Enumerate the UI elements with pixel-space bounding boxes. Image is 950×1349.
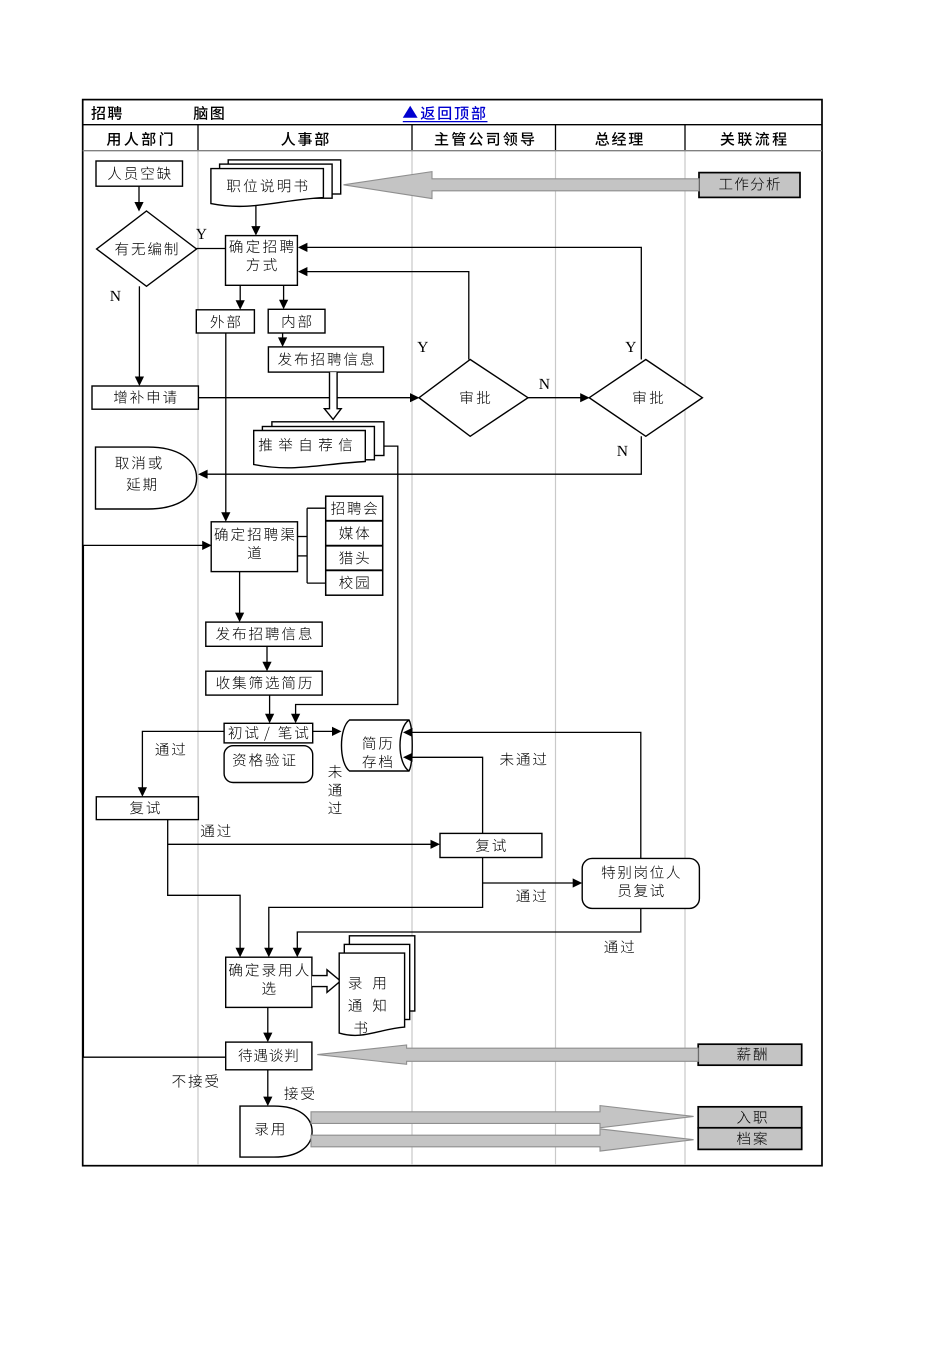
shape: resume archive bbox=[341, 720, 412, 771]
gray box onboarding label bbox=[737, 1111, 767, 1124]
title row bottom line bbox=[83, 124, 822, 126]
column divider x=555.5 bbox=[555, 125, 557, 151]
arrowhead into decide-method top bbox=[251, 226, 260, 236]
title: recruitment label bbox=[91, 106, 121, 120]
label Y at approval diamond 2 bbox=[625, 342, 636, 352]
box: re-test middle bbox=[440, 833, 542, 857]
title: back-to-top link text bbox=[421, 106, 486, 120]
gray arrow: job analysis to job description stack bbox=[344, 172, 700, 199]
arrowhead into collect-resumes bbox=[262, 662, 271, 672]
arrowhead into supplement-request bbox=[135, 377, 144, 387]
wire: re-test middle branch right to special-post-retest bbox=[483, 882, 579, 884]
label Y at approval diamond 1 bbox=[417, 342, 428, 352]
column divider x=412 bbox=[411, 125, 413, 151]
box: staff vacancy bbox=[96, 161, 183, 186]
diamond: approval 2 bbox=[589, 360, 702, 437]
wire: special-post-retest fail feedback to resume-archive bbox=[407, 732, 641, 858]
gray box: onboarding bbox=[698, 1107, 802, 1128]
wire: collect-resumes to first-test bbox=[269, 695, 271, 719]
box: campus bbox=[339, 576, 368, 589]
arrowhead into re-test left bbox=[138, 787, 147, 797]
box: headhunter bbox=[339, 551, 369, 564]
arrowhead into has-quota diamond bbox=[134, 202, 143, 212]
wire: first-test pass left and down to re-test bbox=[142, 731, 224, 793]
gray arrow: salary to negotiation box bbox=[317, 1045, 698, 1064]
gray arrow: hire to archives bbox=[311, 1129, 694, 1151]
gray box: job analysis bbox=[699, 173, 800, 198]
title: back-to-top link triangle bbox=[403, 106, 418, 118]
box: decide recruitment channel bbox=[211, 522, 297, 572]
box: job fair bbox=[326, 496, 383, 595]
wire: first-test fail to resume-archive bbox=[313, 730, 338, 732]
wire: decide-hire to negotiation box bbox=[267, 1007, 269, 1038]
shape: cancel or delay bbox=[96, 447, 197, 509]
wire: re-test middle fail feedback to resume-archive bbox=[407, 757, 483, 833]
label fail (re-test middle feedback) bbox=[500, 753, 546, 766]
arrowhead into cancel-or-delay bbox=[198, 470, 208, 479]
label N below has-quota diamond bbox=[110, 291, 120, 301]
wire: job-description stack to decide-method box bbox=[255, 203, 257, 232]
box: negotiation of pay bbox=[226, 1042, 312, 1070]
thick hollow arrow: decide-hire to offer letters bbox=[312, 970, 341, 993]
wire: re-test left pass to re-test middle bbox=[168, 843, 436, 845]
box: media bbox=[339, 526, 369, 539]
wire: vacancy box to has-quota diamond bbox=[138, 186, 140, 207]
diamond: approval 1 bbox=[419, 360, 528, 437]
wire: approval diamond 1 N to approval diamond 2 bbox=[528, 397, 586, 399]
arrowhead into internal box bbox=[279, 300, 288, 310]
shape: hire terminator bbox=[240, 1106, 312, 1157]
wire: channel bracket bbox=[298, 536, 308, 538]
arrowhead into approval diamond 1 bbox=[410, 393, 420, 402]
column divider x=685 bbox=[684, 125, 686, 151]
wire: internal box to publish-info box bbox=[282, 333, 284, 345]
diamond: has quota? bbox=[97, 211, 197, 286]
arrowhead into external box bbox=[236, 300, 245, 310]
box: decide recruitment method bbox=[226, 236, 298, 286]
wire: re-test middle pass to special-post-retest bbox=[269, 858, 483, 954]
wire: re-test left bottom to re-test middle with branch bbox=[168, 820, 240, 953]
header: company leader in charge bbox=[435, 132, 534, 146]
table outer border bbox=[83, 100, 822, 1166]
wire: recommendation stack right connector down to first-test bbox=[296, 446, 398, 719]
box: publish recruitment info 2 bbox=[206, 622, 322, 646]
box: publish recruitment info 1 bbox=[268, 347, 383, 372]
wire: has-quota N down to supplement-request box bbox=[138, 286, 140, 382]
arrowhead into publish-info 1 bbox=[278, 337, 287, 347]
wire: publish-info 2 to collect-resumes bbox=[266, 646, 268, 667]
document stack: recommendation letters bbox=[272, 422, 384, 456]
label Y at has-quota diamond bbox=[196, 229, 207, 239]
arrowheads into resume-archive right bbox=[403, 728, 413, 737]
label N between approval diamonds bbox=[539, 379, 549, 389]
gray arrow: hire to onboarding bbox=[311, 1106, 694, 1128]
wire: supplement-request to approval diamond 1 bbox=[198, 397, 418, 399]
wire: left feedback from negotiation up to decide-channel bbox=[83, 545, 225, 1057]
arrowhead into resume-archive left bbox=[332, 727, 342, 736]
label not accept bbox=[172, 1074, 218, 1087]
title: mindmap label bbox=[194, 106, 224, 120]
label pass (special post re-test) bbox=[604, 940, 634, 953]
label N below approval diamond 2 bbox=[617, 446, 627, 456]
gray box archives label bbox=[737, 1132, 767, 1145]
wire: approval diamond 2 N down and left to cancel-or-delay bbox=[203, 436, 642, 474]
gray box: archives bbox=[698, 1128, 802, 1150]
wire: has-quota Y to decide-method box bbox=[197, 248, 226, 250]
label pass (re-test left) bbox=[201, 824, 231, 837]
header: hiring department bbox=[107, 132, 173, 146]
label accept bbox=[284, 1087, 314, 1100]
arrowhead into re-test middle left edge bbox=[431, 840, 441, 849]
wire: special-post-retest pass to decide-hire box bbox=[297, 908, 641, 953]
wire: decide-method to internal box bbox=[283, 285, 285, 306]
wire: external box down to decide-channel box bbox=[225, 333, 227, 518]
document stack: job description bbox=[228, 160, 341, 194]
header: HR department bbox=[281, 132, 328, 146]
arrowhead into publish-info 2 bbox=[235, 613, 244, 623]
wire: approval diamond 1 Y feedback up to decide-method bbox=[302, 272, 469, 360]
rounded box: qualification check bbox=[224, 746, 313, 783]
header row bottom line bbox=[83, 150, 822, 152]
arrowheads into decide-hire top bbox=[236, 948, 245, 958]
gray box: salary bbox=[698, 1044, 802, 1065]
box: re-test left bbox=[96, 797, 198, 820]
label fail vertical (to resume archive) bbox=[328, 765, 341, 778]
column divider x=198 (header black, body light gray) bbox=[197, 125, 199, 151]
wire: decide-method to external box bbox=[239, 285, 241, 306]
wire: decide-channel to publish-info 2 bbox=[239, 572, 241, 619]
header: related processes bbox=[721, 132, 787, 146]
label pass (first test) bbox=[155, 743, 185, 756]
document stack: offer notification letters bbox=[349, 936, 414, 1011]
box: external bbox=[196, 310, 254, 333]
arrowhead into decide-channel top bbox=[221, 512, 230, 522]
label pass (to special post re-test) bbox=[516, 889, 546, 902]
box: decide hired candidates bbox=[226, 957, 312, 1007]
arrowhead into decide-channel left edge bbox=[202, 541, 212, 550]
thick hollow arrow: publish info to recommendation stack bbox=[324, 372, 341, 419]
header: general manager bbox=[595, 132, 643, 146]
arrowhead into special-post-retest left edge bbox=[573, 878, 583, 887]
wire: approval diamond 2 Y feedback up to decide-method bbox=[302, 247, 642, 359]
arrowhead into hire terminator bbox=[263, 1097, 272, 1107]
arrowheads into decide-method right edge bbox=[298, 243, 308, 252]
box: supplement request bbox=[92, 386, 198, 409]
arrowheads into first-test top bbox=[265, 714, 274, 724]
box: first test / written test bbox=[224, 723, 313, 743]
arrowhead into negotiation box bbox=[263, 1033, 272, 1043]
box: collect and filter resumes bbox=[206, 671, 322, 695]
arrowhead into approval diamond 2 bbox=[580, 393, 590, 402]
wire: negotiation accept to hire terminator bbox=[267, 1070, 269, 1102]
rounded box: special post personnel re-test bbox=[582, 858, 699, 908]
box: internal bbox=[268, 309, 325, 333]
